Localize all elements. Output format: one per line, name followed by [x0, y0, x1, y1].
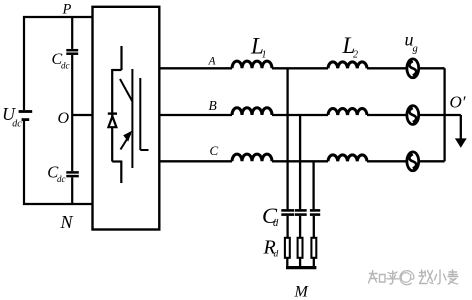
svg-text:dc: dc — [57, 174, 66, 184]
svg-text:N: N — [60, 212, 74, 232]
svg-text:2: 2 — [353, 50, 358, 61]
svg-text:B: B — [209, 98, 217, 113]
svg-text:g: g — [413, 44, 418, 55]
svg-text:d: d — [274, 250, 279, 260]
svg-text:M: M — [294, 284, 310, 300]
svg-text:d: d — [273, 218, 279, 229]
svg-text:1: 1 — [262, 50, 267, 61]
svg-text:O: O — [58, 110, 70, 127]
svg-text:O′: O′ — [450, 93, 466, 112]
svg-text:P: P — [62, 2, 72, 18]
svg-text:A: A — [208, 56, 217, 68]
svg-text:dc: dc — [12, 119, 22, 130]
svg-text:C: C — [210, 143, 219, 158]
svg-text:dc: dc — [61, 61, 70, 71]
